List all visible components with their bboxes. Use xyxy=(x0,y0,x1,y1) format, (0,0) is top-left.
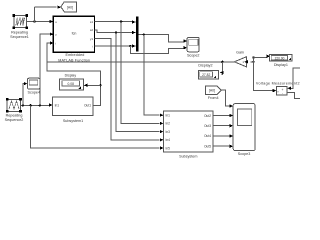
svg-text:0.08: 0.08 xyxy=(67,82,74,86)
wire branch to Goto tag xyxy=(35,6,62,23)
wire fcn out3 down to Subsystem In4 xyxy=(95,39,164,142)
wire tap to Display2 xyxy=(220,61,224,75)
wire Subsystem Out2 to Scope3 xyxy=(213,114,233,117)
wire From4 to Scope3 in1 xyxy=(222,90,234,108)
svg-text:220.90: 220.90 xyxy=(275,56,285,60)
svg-text:Out5: Out5 xyxy=(204,144,211,148)
goto tag [A0] xyxy=(61,2,77,12)
wire fcn out2 to mux in2 xyxy=(95,30,136,34)
wire mux out branch down to Subsystem In1 xyxy=(144,35,164,117)
svg-text:In1: In1 xyxy=(166,114,171,118)
svg-text:[A0]: [A0] xyxy=(209,89,215,93)
svg-text:Sequence1: Sequence1 xyxy=(10,35,29,39)
wire RS2 branch up to fcn in2 xyxy=(40,33,54,106)
svg-text:s2: s2 xyxy=(90,28,94,32)
block Embedded MATLAB Function U1 xyxy=(53,16,94,62)
svg-text:Gain: Gain xyxy=(236,51,244,55)
svg-text:Display2: Display2 xyxy=(198,64,212,68)
wire Subsystem1 out up to fcn via Display node xyxy=(47,62,102,106)
svg-text:In4: In4 xyxy=(166,138,171,142)
scope Scope4 xyxy=(28,78,41,94)
display Display1 xyxy=(270,54,293,67)
block Repeating Sequence1 xyxy=(10,14,29,39)
wire node to Display1 xyxy=(254,55,271,58)
svg-text:Display: Display xyxy=(65,74,77,78)
wire fcn out1 to mux in1 xyxy=(95,20,136,23)
wire fcn out4 branch to Scope2 in2 xyxy=(130,46,187,54)
wire fcn out2 branch down to Subsystem In3 xyxy=(116,33,164,134)
subsystem Subsystem1 xyxy=(53,97,93,123)
svg-text:Out4: Out4 xyxy=(204,134,211,138)
svg-text:In1: In1 xyxy=(55,104,60,108)
wire RS2 to Subsystem1 xyxy=(21,103,53,106)
svg-text:Out3: Out3 xyxy=(204,124,211,128)
svg-text:Subsystem: Subsystem xyxy=(179,154,197,158)
svg-text:In3: In3 xyxy=(166,130,171,134)
wire fcn out1 branch down to Subsystem In2 xyxy=(121,22,163,126)
wire mux out to Scope2 in1 xyxy=(139,33,187,42)
vertical wire from node down to voltage measurement xyxy=(252,56,276,92)
wire Subsystem Out4 to Scope3 xyxy=(213,134,233,137)
svg-text:Repeating: Repeating xyxy=(11,31,28,35)
wire RS2 branch up to Scope4 xyxy=(23,82,28,105)
svg-text:In2: In2 xyxy=(166,122,171,126)
svg-text:-: - xyxy=(282,91,283,95)
wire VM upper right terminal xyxy=(287,68,300,90)
svg-text:fcn: fcn xyxy=(72,32,77,36)
display Display xyxy=(60,74,84,91)
block Repeating Sequence2 xyxy=(5,98,24,122)
scope Scope3 xyxy=(233,104,255,157)
svg-text:Display1: Display1 xyxy=(274,63,288,67)
wire Subsystem Out3 to Scope3 xyxy=(213,124,233,127)
mux xyxy=(136,16,139,51)
svg-text:From4: From4 xyxy=(208,96,219,100)
voltage measurement block xyxy=(256,82,300,96)
svg-text:27.82: 27.82 xyxy=(202,73,210,77)
svg-text:y1: y1 xyxy=(90,37,94,41)
svg-text:Sequence2: Sequence2 xyxy=(5,118,24,122)
wire gain input from node xyxy=(244,60,255,63)
wire gain out feedback to fcn in3 xyxy=(47,41,234,62)
scope Scope2 xyxy=(187,38,200,58)
wire VM lower right terminal xyxy=(287,93,300,99)
svg-text:Scope4: Scope4 xyxy=(28,91,41,95)
svg-text:Embedded: Embedded xyxy=(65,53,84,57)
wire RS1 to fcn in1 xyxy=(27,20,54,23)
wire Subsystem Out5 to Scope3 xyxy=(213,145,233,148)
svg-text:In5: In5 xyxy=(166,146,171,150)
svg-text:Out1: Out1 xyxy=(84,104,91,108)
svg-text:s1: s1 xyxy=(90,20,94,24)
svg-text:Scope2: Scope2 xyxy=(187,54,200,58)
display Display2 xyxy=(198,64,218,79)
wire RS2 branch down to Subsystem In5 xyxy=(31,105,164,149)
svg-text:[A0]: [A0] xyxy=(67,5,73,9)
svg-text:Scope3: Scope3 xyxy=(238,152,251,156)
wire fcn out4 to mux in3 xyxy=(95,44,136,47)
svg-text:Subsystem1: Subsystem1 xyxy=(63,119,83,123)
from tag From4 xyxy=(206,86,222,100)
svg-text:Out2: Out2 xyxy=(204,114,211,118)
gain block (mirrored) xyxy=(234,51,246,67)
svg-text:Repeating: Repeating xyxy=(6,113,23,117)
subsystem Subsystem xyxy=(164,111,214,158)
